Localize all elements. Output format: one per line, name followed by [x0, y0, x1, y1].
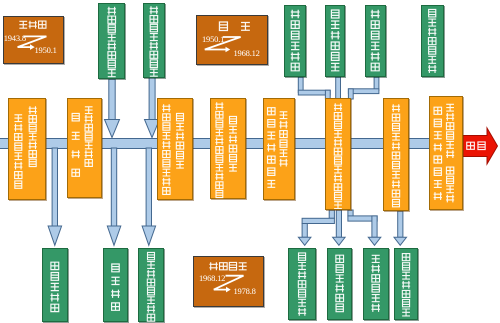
stage box: 一九五三年秋 安徽省歙县中学 (autumn 1953 Anhui Shexian middle school): [263, 98, 295, 200]
node: 歙县坑口中学 (Kengkou middle school): [325, 5, 346, 77]
node: 歙县上丰中学 (Shangfeng middle school): [284, 5, 307, 77]
wire: main horizontal timeline bar: [0, 138, 463, 149]
node: 歙县齐武中学 (Qiwu middle school): [327, 248, 353, 320]
stage box: 一九七八年八月迁回歙中 (Aug 1978 moved back): [383, 98, 409, 212]
stage box: 一九五二年秋 皖南区歙县第一初级中学 (autumn 1952): [210, 98, 246, 200]
value label: 1943.8: [4, 34, 26, 43]
node: 歙县大谷运中学 (Daguyun middle school): [288, 248, 316, 320]
era box: 徽州师范 period 1968.12-1978.8: [193, 256, 265, 307]
stage box: 一九五零年秋 皖南区歙县初级中学 (autumn 1950): [157, 98, 193, 200]
era box: 现址 current campus 1950.1-1968.12: [196, 15, 268, 65]
node: 雄村小学初一年级 (Xiongcun primary school grade 7): [143, 3, 165, 78]
stage box: 二零零零年秋 歙县中学 安徽省示范性高中 (autumn 2000 provincial model school): [429, 96, 463, 210]
node: 深渡简师部 (Shendu branch): [42, 248, 68, 322]
stage box: 一九四九年四月 歙县中学 (Apr 1949 Shexian middle school): [67, 98, 102, 199]
stage box: 一九六八年十二月迁址徽州 (Dec 1968 moved to Huizhou): [325, 98, 351, 211]
node: 潭渡分部 (Tandu branch): [103, 248, 128, 322]
node: 歙县呈坎中学 (Chengkan middle school): [365, 5, 386, 77]
node: 原歙县二中并入 (former Shexian No.2 middle school merged in): [421, 5, 444, 77]
value label: 1950.1: [35, 46, 57, 55]
era box: 问政山 campus 1943.8-1950.1: [3, 16, 64, 64]
value label: 1978.8: [234, 287, 256, 296]
stage box: 一九四三年八月 歙县县立初级中学 (Aug 1943 county junior middle school): [8, 98, 46, 200]
node: 高中部并入休宁中学 (senior section merged into Xiuning): [138, 248, 164, 322]
node: 私立紫阳初级中学 (private Ziyang junior middle school): [98, 3, 125, 80]
node: 歙县红卫场分部 (Hongwei farm branch): [394, 248, 418, 320]
value label: 1968.12: [234, 49, 260, 58]
node: 歙县长潭中学 (Changtan middle school): [363, 248, 389, 320]
value label: 1968.12: [199, 274, 225, 283]
value label: 1950.1: [202, 35, 224, 44]
